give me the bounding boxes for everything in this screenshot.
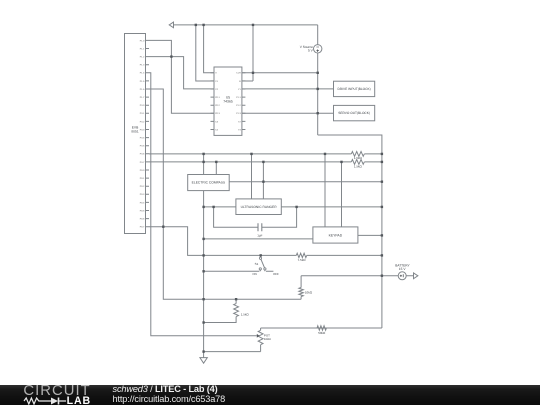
svg-text:P0.7: P0.7 [140, 226, 145, 229]
svg-text:P1.2: P1.2 [236, 104, 241, 107]
svg-text:P3.6: P3.6 [140, 153, 145, 156]
svg-text:P1.7: P1.7 [140, 96, 145, 99]
svg-text:OFF: OFF [273, 272, 279, 276]
svg-text:P0.3: P0.3 [140, 193, 145, 196]
svg-text:15 V: 15 V [399, 267, 406, 271]
svg-text:P0.3: P0.3 [215, 112, 220, 115]
svg-text:P3.7: P3.7 [140, 161, 145, 164]
svg-text:S1: S1 [255, 262, 259, 266]
svg-text:10kΩ: 10kΩ [264, 337, 272, 341]
svg-text:P3.4: P3.4 [140, 137, 145, 140]
svg-text:P1.3: P1.3 [236, 112, 241, 115]
svg-text:5 V: 5 V [308, 49, 314, 53]
svg-text:P0.1: P0.1 [215, 96, 220, 99]
svg-text:1.5kΩ: 1.5kΩ [354, 164, 363, 168]
svg-text:1.5kΩ: 1.5kΩ [241, 313, 250, 317]
svg-text:74365: 74365 [223, 99, 233, 103]
svg-text:KEYPAD: KEYPAD [329, 233, 343, 237]
svg-text:P3.1: P3.1 [140, 112, 145, 115]
svg-text:ON: ON [252, 272, 256, 276]
svg-text:P1.5: P1.5 [140, 80, 145, 83]
svg-text:SERVO OUT(BLOCK): SERVO OUT(BLOCK) [338, 111, 370, 115]
svg-text:P0.6: P0.6 [140, 218, 145, 221]
svg-text:P0.5: P0.5 [140, 209, 145, 212]
svg-text:P3.5: P3.5 [140, 145, 145, 148]
svg-text:10kΩ: 10kΩ [305, 291, 313, 295]
svg-text:ELECTRIC COMPASS: ELECTRIC COMPASS [192, 181, 226, 185]
svg-text:P1.3: P1.3 [140, 64, 145, 67]
svg-text:P1.1: P1.1 [236, 96, 241, 99]
svg-text:1μF: 1μF [257, 234, 262, 238]
svg-text:DRIVE INPUT(BLOCK): DRIVE INPUT(BLOCK) [338, 87, 371, 91]
svg-text:P3.2: P3.2 [140, 120, 145, 123]
svg-text:P0.0: P0.0 [140, 169, 145, 172]
svg-text:P0.2: P0.2 [140, 185, 145, 188]
svg-text:P3.0: P3.0 [140, 104, 145, 107]
svg-text:P3.3: P3.3 [140, 128, 145, 131]
svg-text:CLR: CLR [236, 72, 241, 75]
svg-text:1.5kΩ: 1.5kΩ [354, 156, 363, 160]
svg-text:8051: 8051 [131, 130, 139, 134]
svg-text:P0.4: P0.4 [140, 201, 145, 204]
svg-text:ULTRASONIC RANGER: ULTRASONIC RANGER [241, 205, 278, 209]
svg-text:P1.4: P1.4 [140, 72, 145, 75]
svg-text:7.5kΩ: 7.5kΩ [298, 258, 307, 262]
svg-text:P1.2: P1.2 [140, 56, 145, 59]
svg-text:P0.2: P0.2 [215, 104, 220, 107]
svg-text:P0.1: P0.1 [140, 177, 145, 180]
svg-text:P1.0: P1.0 [140, 39, 145, 42]
svg-text:P1.1: P1.1 [140, 47, 145, 50]
svg-text:50kΩ: 50kΩ [318, 331, 326, 335]
svg-text:P1.6: P1.6 [140, 88, 145, 91]
